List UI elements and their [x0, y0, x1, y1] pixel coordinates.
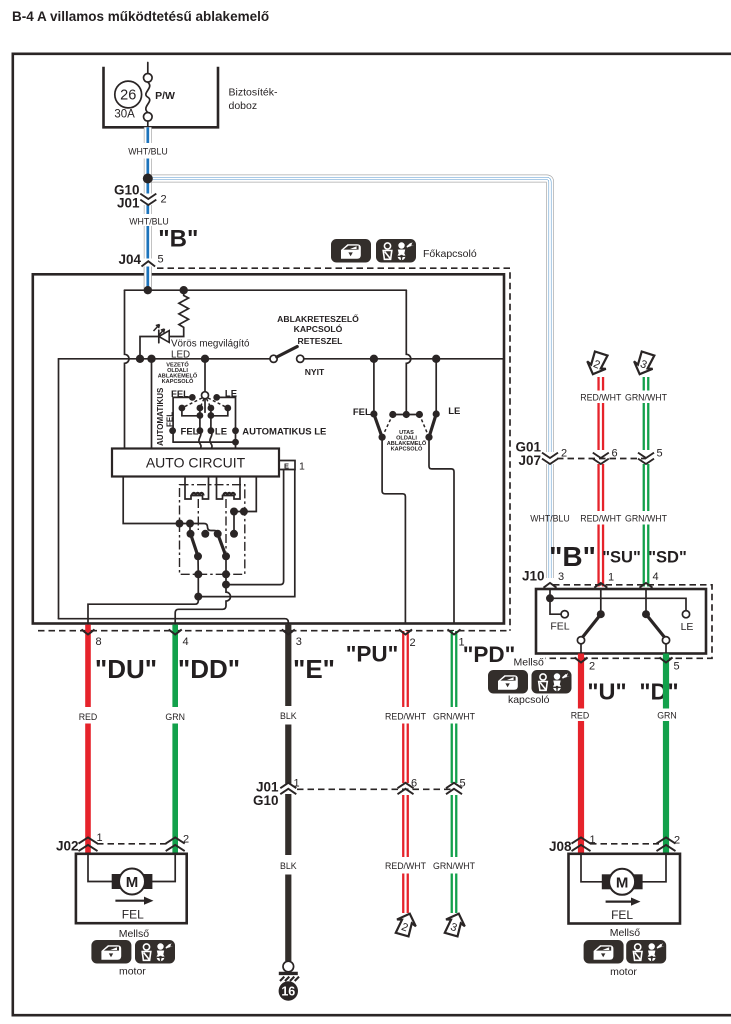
- direction arrow right: [606, 900, 633, 902]
- svg-text:J02: J02: [56, 839, 79, 854]
- fuse F26 symbol: [144, 63, 153, 128]
- svg-text:J10: J10: [522, 568, 545, 583]
- J10 LE contact: [682, 611, 689, 618]
- motor wiring left: [88, 854, 112, 882]
- svg-text:E: E: [284, 462, 289, 471]
- driver switch pivot: [202, 392, 209, 399]
- svg-text:ABLAKRETESZELŐ: ABLAKRETESZELŐ: [277, 313, 359, 324]
- resistor R (LED series): [169, 290, 188, 336]
- node at blue wire entry: [144, 286, 152, 294]
- svg-text:RED/WHT: RED/WHT: [580, 514, 622, 524]
- svg-text:Mellső: Mellső: [514, 656, 545, 668]
- svg-text:1: 1: [299, 461, 305, 473]
- wire WHT/BLU junction segment: [144, 159, 152, 291]
- svg-text:GRN/WHT: GRN/WHT: [433, 861, 476, 871]
- connector G01/J07 chevron WHT/BLU pin 2: [542, 448, 567, 465]
- driver switch output verticals: [199, 408, 201, 431]
- pin chevron overdraw DU: [82, 630, 95, 635]
- wire RED/WHT SU striped: [597, 377, 605, 587]
- svg-text:M: M: [616, 874, 629, 891]
- wire passenger right vertical: [435, 359, 437, 414]
- wire IC to relay contact left: [123, 477, 218, 534]
- wire WHT/BLU horizontal to right and down: [148, 179, 550, 579]
- svg-text:RED/WHT: RED/WHT: [385, 712, 427, 722]
- icon person (Fokapcsolo): [376, 239, 416, 263]
- svg-text:GRN/WHT: GRN/WHT: [625, 393, 668, 403]
- svg-text:WHT/BLU: WHT/BLU: [530, 514, 570, 524]
- relay coil 1 box: [185, 477, 209, 485]
- LED (Voros megvilagito LED): [140, 325, 169, 359]
- driver switch bottom dots: [169, 427, 176, 434]
- wire WHT/BLU from fuse to junction: [144, 127, 152, 143]
- svg-text:"D": "D": [639, 679, 678, 705]
- passenger switch arms: [374, 414, 382, 437]
- svg-text:5: 5: [158, 253, 164, 265]
- wire RED DU upper: [85, 625, 91, 707]
- wire bus horizontal with hops: [59, 358, 271, 360]
- icon window (motor left): [91, 940, 131, 964]
- svg-text:26: 26: [120, 88, 136, 104]
- driver switch bracket left: [173, 397, 192, 442]
- J10 SD contact dot and arm: [642, 610, 650, 618]
- connector G01/J07 dashed line: [557, 458, 646, 460]
- J10 D output stub: [665, 644, 667, 654]
- svg-text:Mellső: Mellső: [610, 927, 641, 939]
- main switch solid box (Fokapcsolo): [33, 274, 504, 623]
- wire pivot feed vertical: [204, 359, 206, 392]
- connector J01/G10 dashed line: [297, 788, 451, 790]
- wire relay common to E tab: [226, 470, 284, 585]
- J10 exit chevron D pin 5: [660, 658, 673, 663]
- connector G01/J07 chevron GRN/WHT pin 5: [638, 453, 654, 458]
- svg-text:kapcsoló: kapcsoló: [508, 694, 550, 706]
- ground symbol 16: [283, 961, 294, 972]
- connector J08 dashed: [590, 843, 659, 845]
- wire GRN DD upper: [172, 625, 178, 707]
- node passenger right feed: [432, 355, 440, 363]
- arrow ref 3 (bottom): [442, 910, 469, 938]
- relay coil 2 winding: [224, 493, 235, 496]
- svg-text:2: 2: [183, 834, 189, 846]
- wavy links into AUTO CIRCUIT: [199, 431, 201, 449]
- node on right contact line: [222, 581, 230, 589]
- svg-text:5: 5: [460, 778, 466, 790]
- svg-text:4: 4: [183, 636, 189, 648]
- pin chevron DD 4: [169, 630, 182, 635]
- wire relay NO vertical: [233, 512, 235, 534]
- svg-text:"PU": "PU": [346, 642, 399, 667]
- svg-text:motor: motor: [119, 966, 146, 978]
- pin chevron overdraw E: [282, 630, 295, 635]
- driver switch L-links: [182, 408, 200, 416]
- svg-text:G10: G10: [253, 793, 279, 808]
- svg-text:GRN/WHT: GRN/WHT: [625, 514, 668, 524]
- svg-text:4: 4: [653, 571, 659, 583]
- wire left vertical to AUTO CIRCUIT: [125, 290, 130, 448]
- svg-text:"SD": "SD": [648, 549, 687, 567]
- connector G10/J01 chevrons pin 2: [140, 194, 167, 206]
- label WHT/BLU below junction: [128, 214, 169, 227]
- node passenger left feed: [370, 355, 378, 363]
- svg-text:"B": "B": [158, 226, 198, 253]
- wire GRN/WHT SD striped: [642, 377, 650, 587]
- J10 entry chevron SD: [640, 583, 653, 588]
- connector chevrons PU pin 6: [398, 783, 414, 788]
- connector G01/J07 chevron RED/WHT pin 6: [593, 453, 609, 458]
- wire left contact output to DU: [197, 574, 199, 596]
- svg-text:5: 5: [674, 661, 680, 673]
- svg-text:GRN: GRN: [657, 710, 677, 720]
- wire bus left vertical: [58, 359, 60, 619]
- svg-text:B-4 A villamos működtetésű abl: B-4 A villamos működtetésű ablakemelő: [12, 9, 269, 24]
- pin chevron PU 2: [399, 630, 412, 635]
- svg-text:3: 3: [558, 571, 564, 583]
- motor M right: [602, 874, 611, 889]
- svg-text:1: 1: [608, 572, 614, 584]
- driver switch bottom bus: [173, 441, 235, 443]
- pin chevron overdraw PD: [448, 630, 461, 635]
- svg-text:LE: LE: [215, 426, 227, 437]
- wire RED DU lower: [85, 724, 91, 854]
- wire RED/WHT PU striped: [402, 631, 410, 913]
- wire RED U: [578, 654, 584, 854]
- junction node on WHT/BLU: [143, 174, 153, 184]
- svg-text:Főkapcsoló: Főkapcsoló: [423, 248, 477, 260]
- connector J08 chevrons pin 2: [657, 837, 676, 843]
- wire GRN DD lower: [172, 724, 178, 854]
- svg-text:2: 2: [410, 637, 416, 649]
- wire passenger PU output: [382, 437, 405, 623]
- wire GRN D: [663, 654, 669, 854]
- wire BLK E upper: [285, 625, 291, 706]
- motor box left (Mellso motor): [76, 854, 187, 923]
- svg-text:NYIT: NYIT: [305, 367, 325, 377]
- arrow ref 3 (top): [630, 349, 657, 378]
- connector J02 dashed: [97, 843, 168, 845]
- icon window (J10): [488, 670, 528, 694]
- svg-text:KAPCSOLÓ: KAPCSOLÓ: [162, 377, 194, 385]
- wire arm1 to border: [197, 556, 199, 574]
- wire WHT/BLU into box overdraw: [144, 268, 152, 291]
- fuse box (Biztositek-doboz): [104, 67, 219, 128]
- connector J01/G10 chevrons on BLK pin 1: [280, 783, 296, 788]
- J10 switch box (Mellso kapcsolo): [536, 589, 706, 654]
- svg-text:M: M: [126, 874, 139, 891]
- motor box right (Mellso motor): [569, 854, 681, 924]
- svg-text:2: 2: [161, 194, 167, 206]
- node driver switch feed: [147, 355, 155, 363]
- connector J02 chevrons pin 1: [79, 837, 98, 843]
- driver switch contact dots near pivot: [189, 394, 196, 401]
- relay linkage dash-dot 2: [225, 499, 227, 552]
- window lock switch contacts: [270, 355, 277, 362]
- connector J04 chevron pin 5: [141, 253, 164, 266]
- icon window (Fokapcsolo): [331, 239, 371, 263]
- svg-text:30A: 30A: [114, 109, 135, 121]
- svg-text:KAPCSOLÓ: KAPCSOLÓ: [294, 323, 343, 334]
- arrow ref 2 (top): [584, 349, 611, 378]
- svg-text:"U": "U": [587, 679, 626, 705]
- pin chevron PD 1: [448, 630, 461, 635]
- svg-text:FEL: FEL: [181, 426, 199, 437]
- svg-text:LE: LE: [681, 621, 694, 633]
- J10 U output stub: [580, 644, 582, 654]
- wire IC right pin down: [234, 477, 256, 512]
- svg-text:FEL: FEL: [611, 908, 633, 922]
- relay enclosure dash-dot: [180, 485, 245, 575]
- relay coil 2 box: [217, 477, 241, 485]
- svg-text:AUTOMATIKUS LE: AUTOMATIKUS LE: [242, 426, 326, 437]
- svg-text:FEL: FEL: [166, 412, 175, 427]
- svg-text:FEL: FEL: [353, 407, 371, 418]
- svg-text:J08: J08: [549, 839, 572, 854]
- relay coil 1 winding: [192, 493, 203, 496]
- svg-text:BLK: BLK: [280, 711, 297, 721]
- svg-text:"B": "B": [549, 541, 596, 572]
- passenger switch dashed rays: [382, 415, 393, 438]
- AUTO CIRCUIT box: [112, 449, 279, 477]
- svg-text:GRN/WHT: GRN/WHT: [433, 712, 476, 722]
- svg-text:"DU": "DU": [95, 654, 157, 684]
- J10 exit chevron overdraw U: [575, 658, 588, 663]
- svg-text:LE: LE: [448, 406, 460, 417]
- svg-text:2: 2: [674, 835, 680, 847]
- main switch dashed connector border J04: [157, 268, 510, 631]
- connector J02 chevrons pin 2: [166, 837, 185, 843]
- svg-text:GRN: GRN: [165, 712, 185, 722]
- svg-text:J04: J04: [118, 252, 141, 267]
- J10 FEL branch: [550, 598, 561, 614]
- svg-text:RED/WHT: RED/WHT: [580, 393, 622, 403]
- icon person (motor left): [135, 940, 175, 964]
- J10 dashed connector border: [545, 585, 712, 659]
- J10 internal feeds: [549, 589, 551, 598]
- passenger switch center row: [393, 414, 420, 416]
- driver switch ray end dots: [179, 405, 186, 412]
- pin chevron overdraw DD: [169, 630, 182, 635]
- pin chevron E 3: [282, 630, 295, 635]
- svg-text:WHT/BLU: WHT/BLU: [128, 146, 168, 156]
- svg-text:"PD": "PD": [463, 642, 516, 667]
- wire passenger left vertical: [373, 359, 375, 414]
- svg-text:FEL: FEL: [122, 907, 144, 921]
- svg-text:AUTO CIRCUIT: AUTO CIRCUIT: [146, 455, 246, 471]
- node at resistor top: [180, 286, 188, 294]
- relay arm 1: [191, 534, 199, 557]
- svg-text:8: 8: [96, 636, 102, 648]
- svg-text:motor: motor: [610, 966, 637, 978]
- svg-text:J01: J01: [117, 196, 140, 211]
- svg-text:Biztosíték-: Biztosíték-: [229, 87, 279, 99]
- svg-text:6: 6: [612, 448, 618, 460]
- svg-text:RED: RED: [79, 712, 98, 722]
- wire right contact output to DD with hop: [175, 574, 230, 624]
- window lock switch arm: [277, 347, 297, 357]
- motor M left: [112, 874, 121, 889]
- fuse 26 circle label: [115, 81, 142, 108]
- wire BLK E middle: [285, 725, 291, 856]
- svg-text:Mellső: Mellső: [119, 928, 150, 940]
- wire top horizontal inside box: [125, 289, 407, 291]
- svg-text:"DD": "DD": [178, 654, 240, 684]
- svg-text:1: 1: [294, 778, 300, 790]
- svg-text:BLK: BLK: [280, 861, 297, 871]
- wire ground bus to BLK: [59, 619, 289, 625]
- svg-text:"E": "E": [293, 654, 335, 684]
- AUTO CIRCUIT pin E tab: [279, 461, 295, 470]
- direction arrow left: [115, 900, 146, 902]
- svg-text:AUTOMATIKUS: AUTOMATIKUS: [156, 387, 165, 446]
- svg-text:RETESZEL: RETESZEL: [298, 336, 343, 346]
- svg-text:doboz: doboz: [229, 100, 258, 112]
- node LED branch: [136, 355, 144, 363]
- J10 internal bus: [550, 598, 686, 610]
- svg-text:2: 2: [589, 661, 595, 673]
- svg-text:P/W: P/W: [155, 90, 175, 102]
- svg-text:16: 16: [281, 985, 295, 999]
- wire GRN/WHT PD striped: [450, 631, 458, 913]
- svg-text:FEL: FEL: [550, 621, 569, 633]
- connector J08 chevrons pin 1: [572, 837, 591, 843]
- wire passenger PD output: [429, 437, 454, 623]
- svg-text:1: 1: [97, 832, 103, 844]
- J10 exit chevron U pin 2: [575, 658, 588, 663]
- wire driver switch feed vertical: [151, 359, 153, 449]
- driver switch dashed rays: [182, 398, 202, 408]
- svg-text:Vörös megvilágító: Vörös megvilágító: [171, 338, 250, 349]
- J10 exit chevron overdraw D: [660, 658, 673, 663]
- pin chevron overdraw PU: [399, 630, 412, 635]
- wire BLK E lower: [285, 875, 291, 962]
- connector chevrons PD pin 5: [446, 783, 462, 788]
- svg-text:RED/WHT: RED/WHT: [385, 861, 427, 871]
- svg-text:J07: J07: [518, 453, 541, 468]
- motor wiring right: [581, 854, 604, 882]
- icon window (motor right): [584, 940, 624, 964]
- relay contact dots row: [187, 530, 195, 538]
- wire bus right vertical: [502, 359, 504, 624]
- svg-text:"SU": "SU": [602, 549, 641, 567]
- J10 SU contact dot and arm: [597, 610, 605, 618]
- pin chevron DU 8: [82, 630, 95, 635]
- icon person (motor right): [626, 940, 666, 964]
- arrow ref 2 (bottom): [393, 910, 420, 938]
- relay arm 2: [218, 534, 226, 557]
- driver switch bracket right: [217, 397, 236, 448]
- wire lock switch top feed: [406, 290, 411, 414]
- wire left contact to E line: [198, 470, 294, 597]
- relay linkage dash-dot 1: [197, 499, 199, 530]
- wire arm2 to border: [225, 556, 227, 574]
- svg-text:6: 6: [411, 778, 417, 790]
- svg-text:3: 3: [296, 636, 302, 648]
- J10 entry chevron B: [544, 583, 557, 588]
- icon person (J10): [532, 670, 572, 694]
- svg-text:5: 5: [657, 448, 663, 460]
- J10 entry chevron SU: [594, 583, 607, 588]
- node pivot feed: [201, 355, 209, 363]
- wire from dot down: [189, 524, 191, 534]
- svg-text:RED: RED: [571, 710, 590, 720]
- svg-text:KAPCSOLÓ: KAPCSOLÓ: [391, 445, 423, 453]
